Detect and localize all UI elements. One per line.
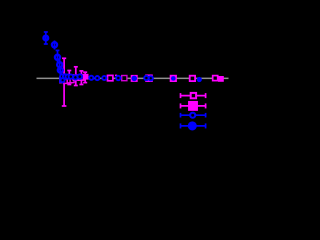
- magenta square x=65.7 below line: [64, 79, 68, 83]
- magenta square x=62 below line: [60, 78, 64, 82]
- magenta filled square x=220.9: [218, 76, 224, 82]
- blue error bar near axis x=62.5: [62, 76, 64, 84]
- magenta error bar x=69.3: [67, 71, 71, 85]
- magenta open square x=148.3: [146, 75, 152, 81]
- blue open circle t1: [44, 36, 49, 41]
- blue error bar t2: [54, 41, 56, 50]
- magenta series error bars: [62, 58, 87, 106]
- magenta square x=81.4: [79, 75, 84, 80]
- blue open circle t4: [57, 62, 62, 67]
- blue error bar t1: [44, 32, 48, 44]
- blue open circle t5: [58, 68, 63, 73]
- blue ring x=91.5: [89, 76, 93, 80]
- blue open circle t3: [55, 55, 60, 60]
- magenta open square x=215.2: [213, 76, 218, 81]
- blue ring x=98.5: [95, 76, 99, 80]
- magenta square x=69.3 below line: [67, 79, 71, 83]
- legend row 2: magenta filled square: [181, 102, 206, 110]
- magenta error bar x=85.2: [83, 72, 87, 82]
- magenta open square x=173.3: [171, 76, 176, 81]
- blue ring x=62.6 below line: [61, 78, 65, 82]
- blue ring x=79.8: [78, 74, 83, 79]
- blue filled circle x=134.2: [131, 76, 137, 82]
- blue ring x=68.3: [66, 74, 70, 78]
- blue open circle t2: [52, 42, 57, 47]
- long magenta error bar x=64.3: [62, 58, 67, 106]
- magenta open square x=124.3: [122, 76, 127, 81]
- magenta open square x=192.4: [190, 76, 195, 81]
- blue ring x=146.6: [144, 76, 148, 80]
- legend: [181, 93, 206, 130]
- blue error bar t3: [56, 50, 60, 63]
- blue ring x=104.5: [102, 76, 106, 80]
- blue error bar t4: [59, 59, 61, 71]
- blue descending series: circles first (black interiors), bars drawn over: [44, 36, 63, 73]
- blue error bar near axis x=60: [59, 76, 61, 83]
- blue error bar t5: [59, 66, 61, 76]
- blue ring x=71.8: [69, 74, 73, 78]
- magenta error bar x=81.4: [79, 71, 83, 85]
- magenta square x=75.8: [73, 75, 78, 80]
- blue ring x=62.3: [60, 74, 64, 78]
- blue ring x=118.3: [116, 76, 120, 80]
- magenta filled square x=85.6: [83, 74, 89, 80]
- magenta error bar x=75.8: [74, 67, 78, 86]
- blue filled circle x=173.3: [171, 76, 176, 81]
- magenta filled square x=134.2: [131, 75, 138, 82]
- legend row 4: blue filled circle: [181, 122, 206, 129]
- magenta square x=71.9 below line: [70, 79, 74, 83]
- legend row 1: magenta open square: [181, 93, 206, 98]
- magenta dash x=116 (behind blue ring): [115, 75, 117, 77]
- legend row 3: blue open circle: [181, 113, 206, 118]
- blue ring x=75.8: [73, 75, 77, 79]
- magenta squares on axis: [60, 74, 224, 84]
- blue circles along axis: [60, 74, 153, 82]
- blue ring x=65.2: [63, 74, 67, 78]
- blue filled circle x=199.3: [197, 77, 202, 82]
- blue ring x=151.3: [149, 76, 153, 80]
- magenta open square x=110.5: [108, 75, 113, 80]
- zero axis line: [37, 78, 229, 80]
